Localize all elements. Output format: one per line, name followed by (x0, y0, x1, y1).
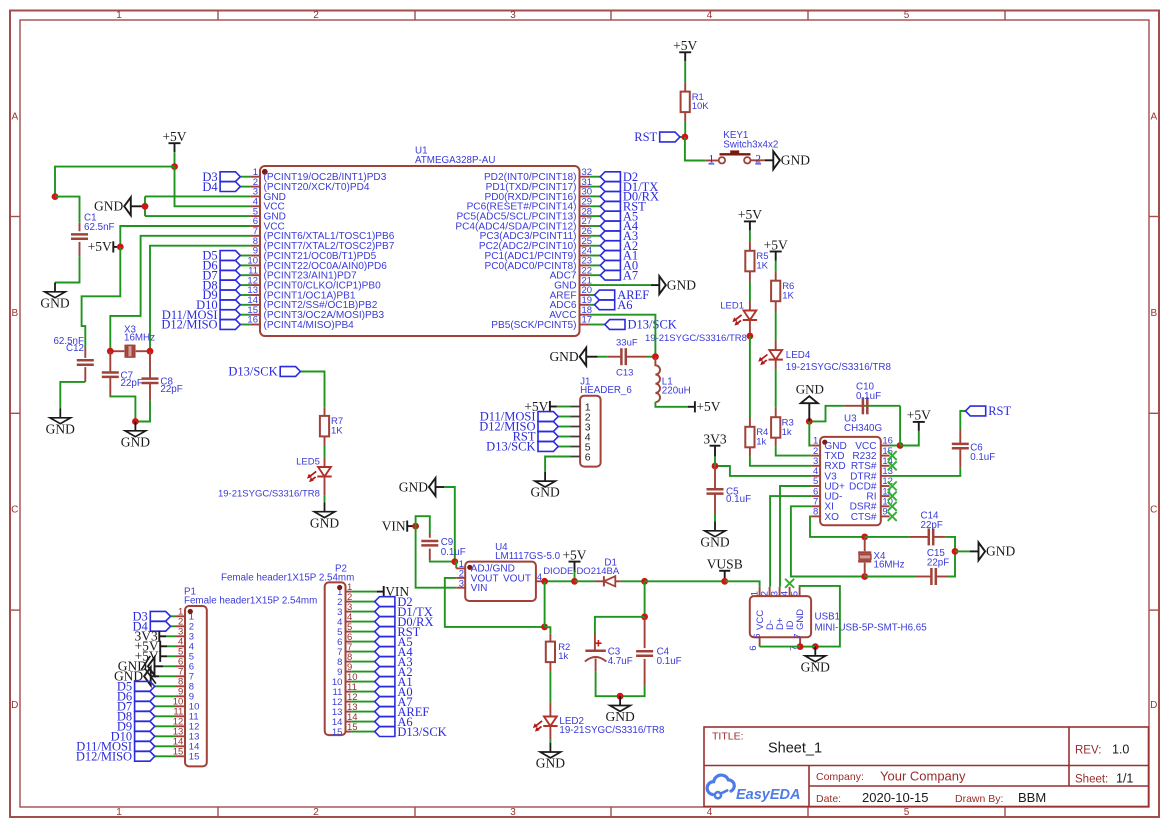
wire P2 pin4 to D0/RX (352, 621, 375, 623)
R4 top lead (749, 418, 751, 427)
wire R3 to U3 TXD (776, 446, 812, 455)
wire C8 to GND node (135, 401, 150, 422)
wire D10 to P1 pin13 (155, 735, 176, 737)
C13 left lead (608, 356, 621, 358)
P1 pin 2 (176, 625, 186, 627)
label KEY1 (723, 130, 778, 151)
U3 pin 7 (811, 505, 820, 507)
U3 pin 15 (881, 455, 890, 457)
wire P2 pin5 to RST (352, 631, 375, 633)
C9 top lead (429, 534, 431, 538)
power flag +5V near U3 (907, 408, 931, 431)
C7 bottom lead (109, 378, 111, 396)
svg-text:GND: GND (549, 349, 578, 364)
P1 pin 11 (176, 715, 186, 717)
svg-text:D12/MISO: D12/MISO (76, 750, 132, 764)
svg-text:GND: GND (781, 153, 810, 168)
no-connect U3 pin 12 (888, 482, 897, 491)
wire D12/MISO to P1 pin15 (155, 755, 176, 757)
power flag +5V J1 (524, 399, 557, 414)
svg-text:VIN: VIN (382, 518, 406, 533)
P2 pin 13 (346, 711, 352, 713)
wire D1 to VUSB net (621, 580, 645, 582)
power flag 3V3 above C5 (703, 432, 726, 457)
R5 bottom lead (749, 271, 751, 281)
svg-text:Sheet:: Sheet: (1075, 774, 1108, 786)
P1 pin 6 (176, 665, 186, 667)
net label A6 at P2 (375, 715, 413, 729)
power flag 3V3 P1 (135, 629, 167, 644)
U1 pin 22 (580, 274, 590, 276)
svg-text:1: 1 (708, 153, 714, 165)
frame tick top (1004, 11, 1006, 21)
svg-text:0.1uF: 0.1uF (726, 494, 751, 505)
P2 pin 6 (346, 641, 352, 643)
capacitor C5 (707, 489, 724, 493)
U1 pin 4 (250, 205, 260, 207)
U3 pin 3 (811, 465, 820, 467)
svg-text:GND: GND (530, 485, 559, 500)
LED4 anode lead (775, 340, 777, 350)
svg-text:16MHz: 16MHz (124, 332, 155, 343)
wire pin22 to A7 (589, 274, 600, 276)
wire VUSB net (645, 580, 725, 582)
svg-text:5: 5 (904, 807, 910, 818)
U1 pin 18 (580, 314, 590, 316)
svg-text:1k: 1k (756, 436, 766, 447)
P2 pin 1 (346, 591, 352, 593)
P2 pin 2 (346, 601, 352, 603)
wire UD+ to USB D+ (780, 486, 811, 587)
wire D12/MISO to pin16 (240, 324, 250, 326)
P1 pin 12 (176, 725, 186, 727)
ground flag U1 pins 3/5 (94, 197, 145, 215)
frame tick left (10, 412, 20, 414)
svg-text:22pF: 22pF (927, 557, 949, 568)
P2 pin-1 marker (337, 585, 342, 590)
P1 pin 15 (176, 755, 186, 757)
wire P2 pin9 to A2 (352, 671, 375, 673)
U3 pin 10 (881, 505, 890, 507)
svg-text:4: 4 (707, 10, 713, 21)
svg-text:1K: 1K (782, 290, 794, 301)
wire C10 to GND node (809, 406, 844, 422)
ground flag P1 pin7 (114, 667, 159, 685)
wire pin28 to A5 (589, 215, 600, 217)
net label D0/RX (600, 190, 659, 204)
ground flag above U3 (796, 382, 824, 422)
svg-text:LED1: LED1 (720, 301, 744, 312)
U1 pin 17 (580, 324, 590, 326)
net label AREF (595, 288, 650, 302)
wire +5V to P1 pin5 (167, 655, 175, 657)
net label D10 (196, 298, 240, 312)
R5 top lead (749, 241, 751, 251)
svg-text:GND: GND (667, 277, 696, 292)
U1 pin 14 (250, 304, 260, 306)
wire VCC node up to C10 (899, 406, 901, 446)
wire XTAL1 pin7 (110, 236, 250, 351)
svg-text:3: 3 (510, 807, 516, 818)
U1 pin 28 (580, 215, 590, 217)
junction AVCC/L1 (652, 353, 659, 360)
power flag +5V at U4 output (562, 547, 586, 570)
P1 pin 5 (176, 655, 186, 657)
wire pin31 to D1/TX (589, 186, 600, 188)
power flag +5V above R6 (764, 237, 788, 260)
junction C4 branch (641, 578, 648, 585)
wire GND pins 3-5 vertical (144, 196, 146, 216)
wire D3 to P1 pin1 (171, 615, 176, 617)
U1 pin 15 (250, 314, 260, 316)
wire D5 to P1 pin8 (155, 685, 176, 687)
net label D9 (202, 288, 240, 302)
ground below LED2 (536, 743, 565, 771)
wire D11/MOSI to J1 pin2 (558, 416, 570, 418)
net label A5 at P2 (375, 635, 413, 649)
op-amp U1 ATMEGA328P-AU body (260, 166, 580, 336)
inductor L1 (655, 357, 660, 402)
wire D4 to pin2 (240, 186, 250, 188)
wire D6 to P1 pin9 (155, 695, 176, 697)
svg-text:B: B (1150, 308, 1157, 319)
junction VCC node U3 (897, 442, 904, 449)
ground below J1 (530, 472, 559, 500)
label USB1 (815, 612, 928, 634)
svg-text:+5V: +5V (738, 207, 762, 222)
U3 pin 6 (811, 495, 820, 497)
wire P2 pin10 to A1 (352, 681, 375, 683)
net label A4 (600, 219, 639, 233)
wire D10 to pin14 (240, 304, 250, 306)
wire +5V to R1 (684, 61, 686, 82)
power flag +5V P1 pin4 (135, 639, 168, 654)
frame tick bottom (217, 807, 219, 817)
svg-text:Female header1X15P 2.54mm: Female header1X15P 2.54mm (221, 573, 354, 584)
ground flag P1 pin6 (118, 657, 163, 675)
J1 pin 5 (571, 446, 581, 448)
label L1 value (662, 377, 691, 397)
junction GND flag node (142, 203, 149, 210)
wire pin29 to RST (589, 205, 600, 207)
junction VOUT/R2 (541, 624, 548, 631)
label C5 value (726, 487, 751, 506)
C15 left lead (916, 576, 931, 578)
svg-text:(PCINT4/MISO)PB4: (PCINT4/MISO)PB4 (264, 320, 355, 331)
net label A4 at P2 (375, 645, 414, 659)
junction X4 bottom (861, 573, 868, 580)
P2 pin 9 (346, 671, 352, 673)
frame tick bottom (807, 807, 809, 817)
label X4 value (874, 551, 905, 570)
net label D3 (202, 170, 240, 184)
svg-text:GND: GND (310, 515, 339, 530)
svg-text:1.0: 1.0 (1112, 743, 1129, 757)
wire AVCC pin18 down (589, 315, 655, 357)
svg-text:A7: A7 (623, 268, 638, 282)
P1 pin 9 (176, 695, 186, 697)
junction 3V3 node (712, 463, 719, 470)
svg-text:5: 5 (904, 10, 910, 21)
wire GND to P1 pin6 (163, 665, 176, 667)
C3 bottom lead (595, 659, 597, 672)
svg-text:9: 9 (882, 507, 887, 518)
label C14 value (921, 511, 943, 531)
U3 pin 4 (811, 475, 820, 477)
P2 pin 11 (346, 691, 352, 693)
wire D7 to pin11 (240, 274, 250, 276)
wire pin30 to D0/RX (589, 195, 600, 197)
LED LED1 (732, 311, 757, 326)
no-connect U3 pin 9 (888, 512, 897, 521)
svg-text:GND: GND (536, 756, 565, 771)
U3 pin-1 marker (822, 440, 827, 445)
net label D3 at P1 (133, 610, 171, 624)
wire GND node to flag (955, 550, 970, 552)
svg-text:+5V: +5V (696, 399, 720, 414)
frame tick top (414, 11, 416, 21)
USB1 pin 7 stub (799, 637, 801, 646)
wire VIN to C9 top (416, 516, 430, 533)
P1 pin 4 (176, 645, 186, 647)
wire pin32 to D2 (589, 176, 600, 178)
svg-text:33uF: 33uF (616, 338, 638, 349)
P1 pin 14 (176, 745, 186, 747)
U1 pin 7 (250, 235, 260, 237)
frame tick bottom (610, 807, 612, 817)
U3 pin 5 (811, 485, 820, 487)
op-amp U4 LM1117GS-5.0 body (465, 562, 536, 601)
ground flag pin21 (651, 276, 696, 294)
wire P2 pin6 to A5 (352, 641, 375, 643)
power flag VUSB (707, 557, 743, 582)
wire pin20 to AREF (589, 294, 594, 296)
net label D4 at P1 (133, 620, 171, 634)
wire D9 to pin13 (240, 294, 250, 296)
net label D2 (600, 170, 638, 184)
wire XI to X4 (791, 506, 865, 576)
wire P2 pin8 to A3 (352, 661, 375, 663)
wire to C3 top (595, 617, 645, 633)
junction VIN node (412, 523, 419, 530)
wire GND to C13 (598, 356, 608, 358)
wire P2 pin3 to D1/TX (352, 611, 375, 613)
USB1 pin 2 stub (769, 587, 771, 596)
svg-text:HEADER_6: HEADER_6 (580, 385, 632, 396)
C7 top lead (109, 351, 111, 371)
U4 pin 3 (456, 587, 465, 589)
J1 pin 6 (571, 456, 581, 458)
junction C3/C4 GND (617, 693, 624, 700)
net label RST near R1 (634, 130, 680, 144)
P2 pin 3 (346, 611, 352, 613)
svg-text:Drawn By:: Drawn By: (955, 793, 1003, 805)
P1 pin 3 (176, 635, 186, 637)
wire +5V to J1 pin1 (557, 406, 571, 408)
U1 pin 11 (250, 274, 260, 276)
svg-text:EasyEDA: EasyEDA (736, 787, 800, 803)
wire USB1 GND loop (800, 586, 840, 647)
junction C7/C8 GND (132, 418, 139, 425)
svg-text:GND: GND (399, 479, 428, 494)
svg-text:D: D (11, 700, 18, 711)
U1 pin 12 (250, 284, 260, 286)
wire XO to X4 (810, 516, 865, 537)
wire P2 pin2 to D2 (352, 601, 375, 603)
svg-text:D: D (1150, 700, 1157, 711)
junction VUSB flag (721, 578, 728, 585)
svg-text:Female header1X15P 2.54mm: Female header1X15P 2.54mm (184, 595, 317, 606)
wire VUSB to USB1 VCC (725, 581, 760, 587)
wire C5 to GND (714, 514, 716, 522)
wire pin27 to A4 (589, 225, 600, 227)
connector J1 HEADER_6 body (580, 396, 601, 467)
svg-text:6: 6 (748, 646, 759, 651)
wire C12 to GND (60, 382, 85, 409)
svg-text:3: 3 (510, 10, 516, 21)
svg-text:C12: C12 (66, 343, 84, 354)
wire +5V to P1 pin4 (167, 645, 175, 647)
svg-text:1k: 1k (558, 651, 568, 662)
wire USB1 pin7 to GND node (800, 646, 815, 648)
power flag +5V P1 pin5 (135, 649, 168, 664)
svg-text:15: 15 (189, 752, 200, 763)
C12 top lead (84, 348, 86, 358)
wire P2 pin12 to A7 (352, 701, 375, 703)
net label D12/MISO at J1 (479, 420, 558, 434)
J1 pin 3 (571, 426, 581, 428)
svg-text:Date:: Date: (816, 793, 841, 805)
svg-text:LED5: LED5 (296, 457, 320, 468)
U3 pin 13 (881, 475, 890, 477)
U1 pin-1 marker (262, 169, 268, 175)
svg-text:1K: 1K (331, 426, 343, 437)
wire R1 to RST node (684, 121, 686, 137)
wire D3 to pin1 (240, 176, 250, 178)
R1 bottom lead (684, 112, 686, 121)
wire D11/MOSI to P1 pin14 (155, 745, 176, 747)
wire L1 to +5V (655, 402, 688, 407)
label C9 value (441, 537, 466, 558)
wire pin23 to A0 (589, 264, 600, 266)
wire X4 bottom to C15 (865, 576, 916, 578)
C12 bottom lead (84, 367, 86, 382)
wire +5V to VCC node (900, 431, 919, 446)
svg-text:19-21SYGC/S3316/TR8: 19-21SYGC/S3316/TR8 (218, 489, 320, 500)
wire pin21 GND (589, 284, 651, 286)
net label A7 at P2 (375, 695, 413, 709)
svg-text:0.1uF: 0.1uF (441, 547, 466, 558)
U3 pin 9 (881, 515, 890, 517)
wire +5V to U1 pin6 VCC (120, 226, 250, 247)
svg-text:3: 3 (459, 578, 464, 589)
svg-text:D13/SCK: D13/SCK (486, 440, 535, 454)
net label D11/MOSI (162, 308, 240, 322)
R2 bottom lead (549, 662, 551, 672)
svg-text:2: 2 (313, 10, 319, 21)
net label D8 (202, 278, 240, 292)
svg-text:4: 4 (707, 807, 713, 818)
ground below C3/C4 (605, 696, 634, 724)
net label RST near C6 (966, 404, 1012, 418)
U1 pin 27 (580, 225, 590, 227)
wire 3V3 to P1 pin3 (166, 635, 175, 637)
ground below C7/C8 (121, 422, 150, 450)
U1 pin 23 (580, 264, 590, 266)
wire C4 to GND node (620, 685, 645, 696)
wire +5V to U1 pin4 VCC (175, 167, 251, 207)
label C8 value (160, 376, 182, 395)
P2 pin 8 (346, 661, 352, 663)
U3 pin 2 (811, 455, 820, 457)
wire R4 to U3 RXD (750, 456, 811, 465)
USB1 pin 6 stub (759, 637, 761, 646)
svg-text:GND: GND (795, 609, 806, 630)
svg-text:GND: GND (40, 295, 69, 310)
label U4 (495, 542, 561, 562)
R6 bottom lead (775, 301, 777, 311)
U4 pin-1 marker (467, 565, 472, 570)
net label RST at J1 (513, 430, 559, 444)
U4 pin 2 (456, 577, 465, 579)
net label D4 (202, 180, 240, 194)
svg-text:22pF: 22pF (121, 378, 143, 389)
svg-text:GND: GND (700, 534, 729, 549)
R7 top lead (324, 407, 326, 416)
svg-text:MINI-USB-5P-SMT-H6.65: MINI-USB-5P-SMT-H6.65 (815, 623, 928, 634)
svg-text:D12/MISO: D12/MISO (161, 318, 217, 332)
wire LED4 to R3 (775, 369, 777, 408)
svg-text:16MHz: 16MHz (874, 559, 905, 570)
U1 pin 9 (250, 255, 260, 257)
U1 pin 26 (580, 235, 590, 237)
net label AREF at P2 (375, 705, 430, 719)
U1 pin 24 (580, 255, 590, 257)
ground below C5 (700, 522, 729, 550)
wire pin4 down to R2 node (544, 581, 546, 627)
junction +5V node (171, 163, 178, 170)
ground below LED5 (310, 502, 339, 530)
wire C1 to GND (55, 256, 80, 282)
junction USB1 GND (812, 643, 819, 650)
svg-text:D13/SCK: D13/SCK (628, 318, 677, 332)
P2 pin 15 (346, 731, 352, 733)
ground below USB1 (801, 647, 830, 675)
P1 GND diagonal lead 1 (141, 656, 150, 670)
C5 top lead (714, 466, 716, 488)
wire down to C3/C4 row (644, 581, 646, 617)
U1 pin 19 (580, 304, 590, 306)
U3 pin 12 (881, 485, 890, 487)
svg-text:3V3: 3V3 (703, 432, 726, 447)
capacitor C15 (931, 568, 935, 585)
junction X4 top (861, 534, 868, 541)
wire D8 to pin12 (240, 284, 250, 286)
label C10 value (856, 381, 881, 402)
U1 pin 3 (250, 195, 260, 197)
U1 pin 31 (580, 186, 590, 188)
U1 pin 16 (250, 324, 260, 326)
U1 pin 25 (580, 245, 590, 247)
junction USB1 pin7 (797, 643, 804, 650)
svg-text:4.7uF: 4.7uF (608, 656, 633, 667)
USB1 pin 1 stub (759, 587, 761, 596)
svg-text:22pF: 22pF (921, 520, 943, 531)
label LED2 (559, 716, 665, 736)
C8 top lead (149, 351, 151, 378)
LED5 cathode lead (324, 477, 326, 495)
wire RST flag stub (680, 136, 685, 138)
